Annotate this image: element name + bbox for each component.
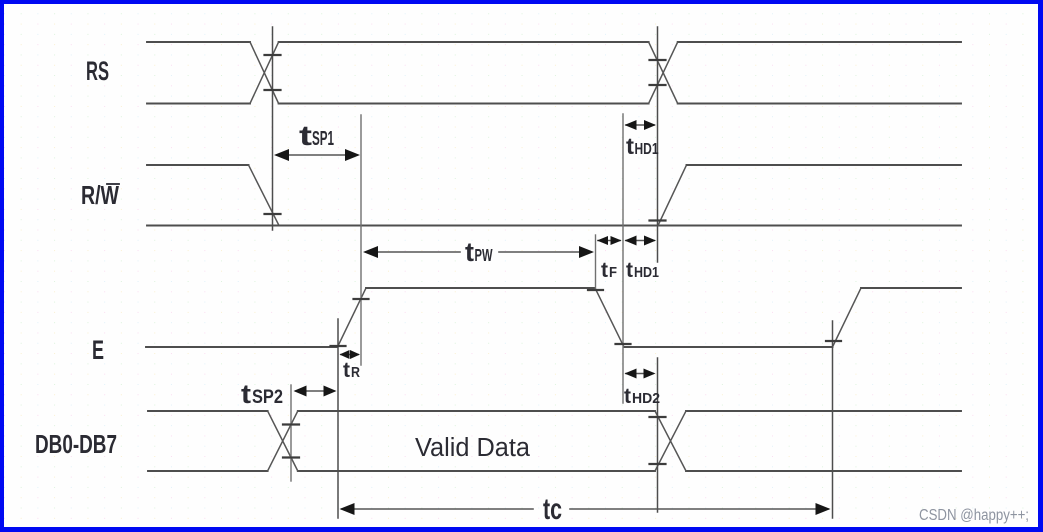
E low rail middle segment — [624, 346, 833, 348]
tick mark on R/W rising edge foot — [650, 219, 666, 221]
tick marks on E rising edge 1 — [331, 299, 369, 346]
dimension line V7 at RS right crossing — [657, 27, 659, 262]
dimension line V5 at E fall start — [595, 235, 597, 289]
DB0-DB7 left crossing X — [268, 411, 298, 471]
dimension arrow tHD1 top — [625, 120, 657, 130]
tick marks on RS left crossing — [265, 55, 281, 90]
E high rail right segment — [861, 287, 961, 289]
overline over W of R/W — [107, 183, 119, 185]
E rising edge 2 — [833, 288, 862, 347]
R/W high rail right segment — [687, 164, 962, 166]
dimension arrow tF — [597, 236, 622, 245]
tick marks on RS right crossing — [650, 60, 666, 85]
R/W low rail — [147, 225, 961, 227]
tick mark on R/W falling edge — [265, 213, 281, 215]
E low rail left segment — [146, 346, 338, 348]
dimension arrow tR — [340, 350, 361, 359]
dimension arrow tSP2 — [294, 386, 337, 397]
R/W rising edge — [658, 165, 687, 226]
DB0-DB7 bus high rail — [148, 410, 961, 412]
E high rail pulse — [366, 287, 595, 289]
R/W high rail left segment — [147, 164, 249, 166]
tick marks on DB left crossing — [283, 425, 299, 458]
dimension arrow tSP1 — [274, 149, 360, 161]
RS right crossing X — [649, 42, 678, 104]
DB0-DB7 right crossing X — [655, 411, 686, 471]
E falling edge — [595, 288, 624, 347]
tick marks on E falling edge — [588, 290, 631, 344]
RS left crossing X — [250, 42, 279, 104]
dimension line V8 at DB right crossing — [657, 358, 659, 512]
dimension line V9 at E rise 2 — [832, 321, 834, 518]
RS bus high rail — [147, 41, 961, 43]
dimension line V1 at RS left crossing — [272, 27, 274, 230]
dimension line V6 at tF/tHD1 — [622, 114, 624, 403]
tick mark on E rising edge 2 — [826, 340, 841, 342]
dimension line V4 at DB left crossing — [290, 385, 292, 481]
dimension arrow tC — [340, 503, 831, 515]
E rising edge 1 — [338, 288, 367, 347]
dimension arrow tHD1 bottom — [625, 236, 657, 246]
dimension line V3 at E rise — [337, 319, 339, 518]
RS bus low rail — [147, 103, 961, 105]
dimension arrow tPW — [363, 246, 594, 258]
dimension line V2 at tSP1 right — [360, 115, 362, 365]
R/W falling edge — [249, 165, 280, 226]
tick marks on DB right crossing — [650, 417, 666, 464]
dimension arrow tHD2 — [625, 369, 656, 379]
DB0-DB7 bus low rail — [148, 470, 961, 472]
